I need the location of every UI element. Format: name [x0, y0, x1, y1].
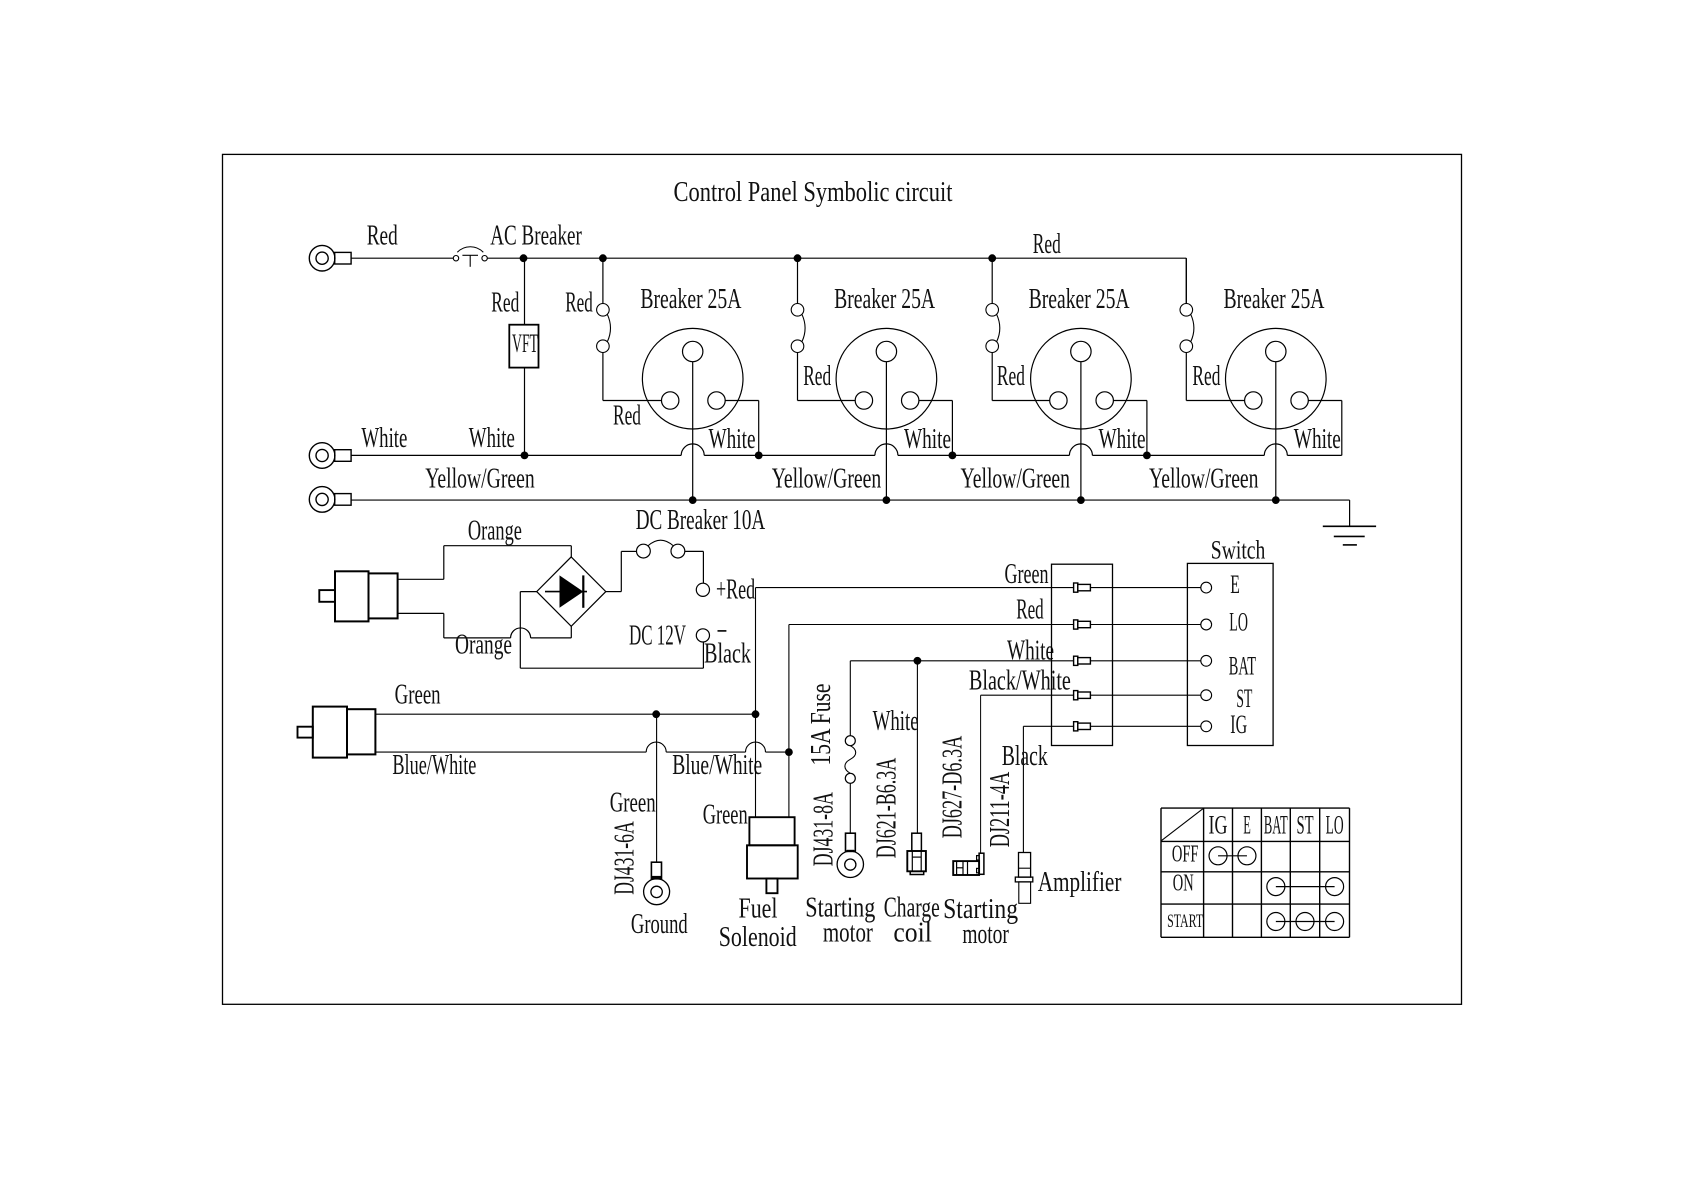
wire orange bottom (P1 to rectifier AC2) [398, 613, 572, 638]
wire X1 to AC breaker [351, 257, 453, 259]
wire ST row (Black/White) [981, 695, 1074, 853]
wire ground lead (Green) [656, 714, 658, 862]
svg-text:OFF: OFF [1172, 840, 1199, 867]
svg-text:Red: Red [367, 220, 398, 251]
AC breaker CB0 [453, 247, 487, 267]
svg-text:Fuel: Fuel [739, 894, 778, 925]
switch terminal IG [1201, 721, 1212, 732]
node: junction breaker2 tap [794, 254, 802, 262]
wire LO-drop (to solenoid) [788, 625, 790, 818]
svg-text:Blue/White: Blue/White [672, 750, 762, 781]
node: junction J1 earth [689, 496, 697, 504]
node: junction J3 white [1143, 452, 1151, 460]
svg-text:Yellow/Green: Yellow/Green [961, 464, 1071, 495]
svg-text:Breaker 25A: Breaker 25A [640, 284, 742, 315]
wire VFT to white bus [524, 368, 526, 456]
node: junction J3 earth [1077, 496, 1085, 504]
svg-text:Green: Green [703, 800, 748, 831]
svg-text:DJ627-D6.3A: DJ627-D6.3A [938, 735, 969, 838]
svg-text:E: E [1230, 569, 1240, 599]
border frame [223, 154, 1462, 1004]
wire rectifier + output to DC breaker [606, 551, 637, 591]
svg-text:ON: ON [1173, 870, 1194, 897]
wire J3 earth pin to yellow/green bus [1080, 362, 1082, 500]
wire J1 earth pin to yellow/green bus [692, 362, 694, 500]
wire J2 neutral pin to white bus [919, 401, 953, 456]
wire top bus corner down to CB4 [1185, 258, 1187, 303]
bridge rectifier D1 [537, 557, 606, 626]
wire blue/white (P2 to fuel solenoid / LO) [375, 751, 789, 753]
svg-text:White: White [1007, 636, 1054, 667]
svg-text:Black: Black [1002, 741, 1048, 772]
svg-text:White: White [873, 706, 919, 737]
wire charge coil (White) [916, 661, 918, 833]
node: junction blue-white/LO-drop [785, 748, 793, 756]
wire CN1 pin 2 to switch [1090, 624, 1200, 626]
hop orange wire over black wire [511, 628, 531, 638]
hop white bus over J4 earth wire [1264, 444, 1287, 456]
svg-text:Ground: Ground [631, 909, 688, 940]
svg-text:DJ621-B6.3A: DJ621-B6.3A [872, 757, 903, 858]
svg-text:E: E [1243, 811, 1251, 840]
svg-text:LO: LO [1326, 811, 1344, 840]
svg-text:Red: Red [1033, 229, 1061, 260]
hop white bus over J1 earth wire [681, 444, 704, 456]
svg-text:DJ431-8A: DJ431-8A [808, 792, 839, 866]
wire J1 neutral pin to white bus [725, 401, 759, 456]
switch S1 box [1187, 563, 1273, 745]
svg-text:White: White [1294, 424, 1341, 455]
svg-text:15A Fuse: 15A Fuse [806, 684, 837, 766]
svg-text:Red: Red [565, 288, 593, 319]
node: junction J2 earth [883, 496, 891, 504]
wire earth drop [1349, 500, 1351, 526]
wire J2 earth pin to yellow/green bus [885, 362, 887, 500]
receptacle J3 (Breaker 25A outlet) [1031, 328, 1132, 429]
svg-text:Black/White: Black/White [969, 666, 1071, 697]
hop blue/white over green drop wire [746, 742, 766, 752]
switch terminal ST [1201, 690, 1212, 701]
receptacle J4 (Breaker 25A outlet) [1226, 328, 1327, 429]
connector starting motor 2 (sideways bullet) [953, 853, 984, 875]
svg-text:Orange: Orange [455, 630, 512, 661]
receptacle J1 (Breaker 25A outlet) [642, 328, 743, 429]
ring terminal X3 (Yellow/Green earth) [309, 487, 351, 513]
node: junction J4 earth [1272, 496, 1280, 504]
amplifier module [1015, 853, 1033, 904]
wire IG row (Black) [1023, 726, 1073, 852]
svg-text:AC Breaker: AC Breaker [490, 220, 582, 251]
node: junction J1 white [755, 452, 763, 460]
svg-text:Switch: Switch [1211, 536, 1266, 565]
node: junction breaker1 tap [599, 254, 607, 262]
node: junction VFT/white [521, 452, 529, 460]
svg-text:Yellow/Green: Yellow/Green [772, 464, 882, 495]
ring terminal X2 (White AC neutral) [309, 443, 351, 469]
wire green (P2 to fuel solenoid / E) [375, 713, 755, 715]
ring terminal ground lug [644, 862, 670, 905]
receptacle J2 (Breaker 25A outlet) [836, 328, 937, 429]
svg-text:Breaker 25A: Breaker 25A [1029, 284, 1131, 315]
wire J3 neutral pin to white bus [1113, 401, 1147, 456]
table ON contacts BAT-LO [1267, 878, 1344, 896]
svg-text:Red: Red [491, 288, 519, 319]
wire yellow/green bus [351, 499, 1350, 501]
wire CN1 pin 1 to switch [1090, 587, 1200, 589]
hop blue/white over ground wire [646, 742, 666, 752]
terminal +Red (DC 12V positive) [696, 583, 709, 596]
svg-text:Breaker 25A: Breaker 25A [834, 284, 936, 315]
switch terminal E [1201, 582, 1212, 593]
CN1 pin 3 [1074, 656, 1091, 665]
svg-text:motor: motor [823, 918, 873, 949]
svg-text:BAT: BAT [1264, 811, 1288, 840]
hop white bus over J2 earth wire [875, 444, 898, 456]
ring terminal X1 (Red AC line) [309, 245, 351, 271]
wire rectifier - output to Black terminal [520, 592, 703, 669]
svg-text:Red: Red [997, 361, 1025, 392]
wire VFT drop (Red) [524, 258, 526, 325]
wire BAT row (White) [850, 661, 1073, 736]
svg-text:Yellow/Green: Yellow/Green [1149, 464, 1259, 495]
svg-text:White: White [904, 424, 951, 455]
CN1 pin 1 [1074, 583, 1091, 592]
svg-text:IG: IG [1209, 811, 1228, 840]
svg-text:White: White [361, 423, 407, 454]
ground symbol [1323, 526, 1376, 545]
svg-text:DC 12V: DC 12V [629, 621, 686, 652]
svg-text:DJ431-6A: DJ431-6A [610, 821, 641, 895]
svg-text:DJ211-4A: DJ211-4A [985, 771, 1016, 847]
svg-text:LO: LO [1229, 606, 1248, 636]
svg-text:IG: IG [1230, 709, 1247, 739]
svg-text:Breaker 25A: Breaker 25A [1224, 284, 1326, 315]
wire top red bus [487, 257, 1186, 259]
svg-text:White: White [709, 424, 756, 455]
ring terminal starting motor lug [837, 833, 863, 877]
node: junction J2 white [949, 452, 957, 460]
svg-text:Green: Green [395, 680, 441, 711]
svg-text:START: START [1167, 912, 1203, 932]
svg-text:coil: coil [893, 918, 932, 949]
node: junction green/ground [652, 710, 660, 718]
CN1 pin 5 [1074, 722, 1091, 731]
svg-text:Yellow/Green: Yellow/Green [425, 464, 535, 495]
svg-text:Green: Green [1005, 559, 1049, 590]
svg-text:Control Panel Symbolic circuit: Control Panel Symbolic circuit [674, 177, 953, 208]
svg-text:Red: Red [613, 401, 641, 432]
svg-text:ST: ST [1297, 811, 1314, 840]
wire LO row (Red) [789, 624, 1074, 626]
connector P1 (Orange pair plug) [319, 571, 397, 621]
breaker CB3 switch [986, 258, 1050, 400]
switch terminal LO [1201, 619, 1212, 630]
fuse F1 15A [845, 736, 856, 834]
svg-text:Red: Red [1016, 595, 1043, 626]
table OFF contacts IG-E [1209, 847, 1256, 865]
svg-text:Black: Black [704, 639, 751, 670]
wire orange top (P1 to rectifier AC1) [398, 546, 572, 580]
svg-text:BAT: BAT [1229, 650, 1256, 680]
breaker CB2 switch [791, 258, 855, 400]
svg-text:motor: motor [962, 919, 1009, 950]
svg-text:White: White [469, 423, 515, 454]
svg-text:Green: Green [610, 788, 656, 819]
connector P2 (Green / Blue-White plug) [298, 707, 376, 758]
CN1 pin 2 [1074, 620, 1091, 629]
VFT module [509, 325, 538, 368]
wire J4 neutral pin to white bus [1308, 401, 1342, 456]
breaker CB4 switch [1180, 258, 1245, 400]
node: junction green/E-drop [752, 710, 760, 718]
wire CN1 pin 3 to switch [1090, 660, 1200, 662]
breaker CB1 switch [597, 258, 662, 400]
svg-text:Blue/White: Blue/White [392, 750, 476, 781]
svg-text:Solenoid: Solenoid [719, 922, 797, 953]
wire CN1 pin 5 to switch [1090, 725, 1200, 727]
DC breaker CB5 (10A) [637, 540, 685, 558]
node: junction breaker3 tap [988, 254, 996, 262]
terminal - Black (DC 12V negative) [696, 629, 709, 642]
connector block CN1 [1052, 564, 1113, 745]
svg-text:+Red: +Red [716, 575, 755, 606]
svg-text:Red: Red [803, 361, 831, 392]
svg-text:Amplifier: Amplifier [1038, 867, 1122, 898]
node: junction AC breaker output [520, 254, 528, 262]
wire DC breaker to +Red terminal [685, 551, 704, 583]
svg-text:Orange: Orange [468, 516, 522, 547]
label minus sign [718, 630, 727, 632]
wire J4 earth pin to yellow/green bus [1275, 362, 1277, 500]
wire white bus [351, 454, 1342, 456]
svg-text:VFT: VFT [512, 329, 538, 358]
svg-text:DC Breaker 10A: DC Breaker 10A [636, 505, 766, 536]
CN1 pin 4 [1074, 691, 1091, 700]
svg-text:Red: Red [1192, 361, 1220, 392]
wire E row (Green) [756, 587, 1074, 589]
switch terminal BAT [1201, 655, 1212, 666]
fuel solenoid SOL1 [747, 817, 798, 893]
switch truth table [1161, 808, 1350, 937]
wire CN1 pin 4 to switch [1090, 694, 1200, 696]
table START contacts BAT-ST-LO [1267, 913, 1344, 931]
node: junction BAT/charge-coil [914, 657, 922, 665]
svg-text:White: White [1099, 424, 1146, 455]
wire E-drop (+Red corner to solenoid) [755, 588, 757, 818]
hop white bus over J3 earth wire [1069, 444, 1092, 456]
connector charge coil (bullet) [907, 833, 926, 874]
